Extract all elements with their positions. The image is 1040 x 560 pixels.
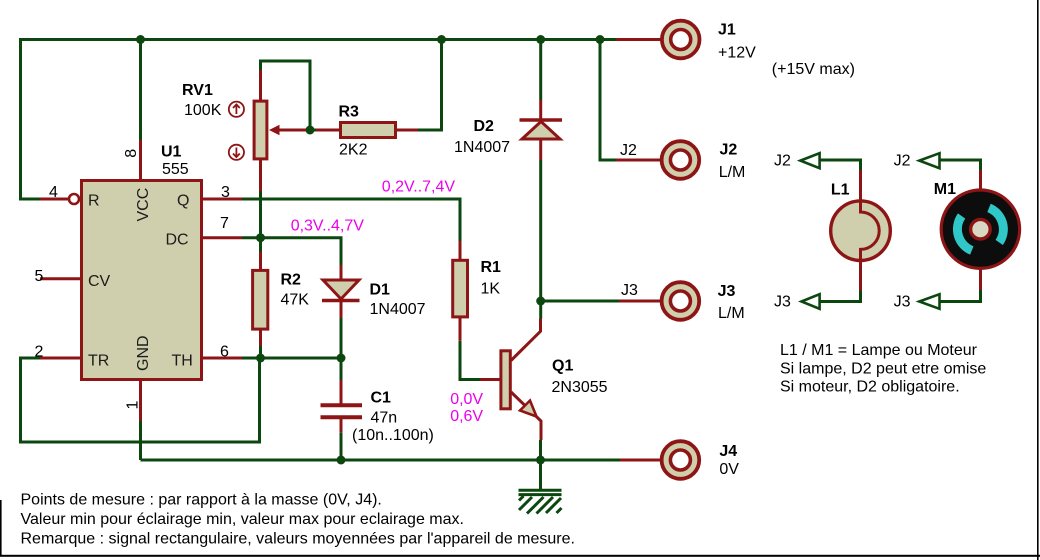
pin 7 stub DC — [203, 236, 242, 239]
svg-text:Q1: Q1 — [552, 358, 573, 375]
wire VCC drop from top rail — [139, 38, 142, 140]
svg-text:555: 555 — [162, 161, 189, 178]
svg-text:J1: J1 — [718, 22, 736, 39]
junction D1/C1 node — [337, 354, 346, 363]
potentiometer RV1 body — [259, 70, 262, 101]
svg-text:J3: J3 — [774, 293, 791, 310]
wire D2 bottom to collector — [539, 160, 542, 319]
svg-text:47K: 47K — [281, 292, 310, 309]
svg-text:J2: J2 — [894, 153, 911, 170]
motor M1 — [979, 170, 982, 191]
junction J3 node — [536, 297, 545, 306]
RV1 down adjust circle — [229, 145, 244, 160]
RV1 up adjust circle — [229, 102, 244, 117]
wire lamp top to J2 arrow — [820, 160, 861, 170]
svg-text:R2: R2 — [281, 272, 302, 289]
svg-text:CV: CV — [88, 273, 111, 290]
svg-text:Valeur min pour éclairage min,: Valeur min pour éclairage min, valeur ma… — [21, 511, 464, 528]
svg-text:M1: M1 — [934, 181, 956, 198]
svg-text:C1: C1 — [371, 390, 392, 407]
wire R1 bottom to base — [460, 341, 480, 380]
wire R2 bottom to TH node — [259, 346, 262, 358]
junction D2 branch on rail — [536, 35, 545, 44]
svg-text:4: 4 — [49, 184, 58, 201]
wire motor top to J2 arrow — [940, 160, 981, 170]
svg-text:Si lampe, D2 peut etre omise: Si lampe, D2 peut etre omise — [780, 360, 986, 377]
wire lamp bottom to J3 arrow — [820, 291, 861, 302]
svg-text:7: 7 — [220, 215, 229, 232]
transistor Q1 2N3055 — [480, 378, 500, 381]
svg-text:8: 8 — [123, 149, 140, 158]
junction C1 on rail — [337, 456, 346, 465]
svg-text:U1: U1 — [161, 144, 182, 161]
wire GND pin down — [139, 421, 142, 460]
ground symbol — [519, 490, 562, 513]
svg-text:J2: J2 — [620, 142, 637, 159]
pin 1 stub GND — [139, 380, 142, 421]
connector J1 — [616, 38, 661, 41]
svg-text:Si moteur, D2 obligatoire.: Si moteur, D2 obligatoire. — [780, 379, 960, 396]
svg-text:D1: D1 — [370, 282, 391, 299]
svg-text:2K2: 2K2 — [339, 142, 368, 159]
wire R3 right up to rail — [417, 40, 442, 131]
svg-text:L/M: L/M — [719, 164, 746, 181]
svg-text:0,2V..7,4V: 0,2V..7,4V — [382, 179, 456, 196]
pin 2 stub TR — [40, 357, 80, 360]
resistor R3 — [316, 129, 340, 132]
op-amp U1 555 body — [82, 181, 202, 380]
motor terminal arrow J3 — [919, 294, 939, 309]
wire ground symbol stub — [539, 460, 542, 490]
lamp terminal arrow J3 — [802, 294, 820, 309]
svg-text:TH: TH — [172, 353, 193, 370]
svg-text:(10n..100n): (10n..100n) — [352, 427, 434, 444]
svg-text:Points de mesure : par rapport: Points de mesure : par rapport à la mass… — [21, 492, 382, 509]
junction wiper node — [306, 126, 315, 135]
svg-text:L1: L1 — [831, 182, 850, 199]
wire J3 branch — [541, 300, 619, 303]
wire C1 bottom green — [340, 433, 343, 460]
svg-text:J3: J3 — [894, 293, 911, 310]
resistor R1 — [459, 241, 462, 260]
svg-text:1N4007: 1N4007 — [454, 139, 510, 156]
wire J2 branch from rail — [600, 40, 616, 161]
svg-text:L1 / M1 = Lampe ou Moteur: L1 / M1 = Lampe ou Moteur — [780, 342, 978, 359]
svg-text:+12V: +12V — [718, 45, 756, 62]
wire pot top loop — [261, 61, 311, 130]
svg-text:5: 5 — [35, 268, 44, 285]
pin 6 stub TH — [203, 357, 242, 360]
junction at VCC drop — [136, 35, 145, 44]
diode D2 1N4007 — [539, 100, 542, 120]
svg-text:J2: J2 — [774, 153, 791, 170]
svg-text:0,0V: 0,0V — [450, 391, 483, 408]
pin 3 stub Q — [203, 198, 242, 201]
svg-text:GND: GND — [135, 335, 152, 371]
svg-text:1K: 1K — [481, 281, 501, 298]
svg-text:2N3055: 2N3055 — [552, 379, 608, 396]
wire D2 top from rail — [539, 40, 542, 101]
svg-text:1N4007: 1N4007 — [370, 301, 426, 318]
svg-text:Remarque : signal rectangulair: Remarque : signal rectangulaire, valeurs… — [21, 531, 575, 548]
wire TH pin to D1 bottom node — [242, 357, 341, 360]
wire bottom ground rail — [141, 459, 621, 462]
svg-text:2: 2 — [35, 344, 44, 361]
svg-text:J3: J3 — [621, 282, 638, 299]
svg-text:1: 1 — [125, 401, 142, 410]
lamp L1 — [859, 170, 862, 202]
svg-text:R1: R1 — [481, 259, 502, 276]
wire emitter green — [539, 440, 542, 460]
svg-text:100K: 100K — [184, 102, 222, 119]
svg-text:0,3V..4,7V: 0,3V..4,7V — [291, 218, 365, 235]
wire TR loop — [21, 358, 260, 442]
pin 5 stub CV — [40, 277, 80, 280]
border frame left lower — [0, 500, 2, 556]
pin 8 stub VCC — [139, 140, 142, 180]
lamp terminal arrow J2 — [800, 153, 819, 168]
wire top rail and left vertical to pin 4 — [21, 40, 617, 200]
wire C1 top green — [340, 358, 343, 380]
svg-text:TR: TR — [88, 353, 109, 370]
connector J3 — [619, 300, 661, 303]
pin 4 stub with bubble — [40, 198, 68, 201]
junction emitter/ground on rail — [536, 456, 545, 465]
svg-text:DC: DC — [166, 232, 189, 249]
svg-text:0,6V: 0,6V — [450, 408, 483, 425]
svg-text:47n: 47n — [371, 410, 398, 427]
border frame right — [1037, 0, 1039, 560]
connector J4 — [620, 459, 660, 462]
svg-text:D2: D2 — [474, 118, 495, 135]
svg-text:3: 3 — [221, 184, 230, 201]
resistor R2 — [259, 252, 262, 270]
wire Q output to R1 top — [242, 199, 460, 241]
junction J2 branch on rail — [596, 35, 605, 44]
svg-text:J2: J2 — [720, 142, 738, 159]
wire motor bottom to J3 arrow — [940, 290, 981, 302]
svg-text:L/M: L/M — [718, 305, 745, 322]
svg-text:0V: 0V — [719, 461, 739, 478]
wire DC pin to D1 top — [242, 238, 341, 265]
svg-text:J4: J4 — [719, 443, 737, 460]
junction TH node — [256, 354, 265, 363]
junction DC node — [256, 233, 265, 242]
svg-text:R3: R3 — [339, 104, 360, 121]
wire wiper to R3 — [310, 129, 318, 132]
wire pot bottom to R2 top — [259, 191, 262, 252]
svg-text:(+15V max): (+15V max) — [772, 61, 855, 78]
svg-text:R: R — [88, 193, 100, 210]
svg-text:J3: J3 — [718, 283, 736, 300]
diode D1 1N4007 — [340, 265, 343, 280]
capacitor C1 — [340, 380, 343, 404]
border frame bottom — [0, 555, 1040, 557]
svg-text:Q: Q — [177, 193, 189, 210]
connector J2 — [616, 159, 661, 162]
junction R3 branch on rail — [437, 35, 446, 44]
svg-text:VCC: VCC — [135, 188, 152, 222]
svg-text:6: 6 — [220, 344, 229, 361]
potentiometer RV1 wiper arrow — [276, 129, 306, 132]
svg-text:RV1: RV1 — [182, 82, 213, 99]
wire D1 bottom green — [340, 318, 343, 358]
motor terminal arrow J2 — [919, 153, 939, 168]
